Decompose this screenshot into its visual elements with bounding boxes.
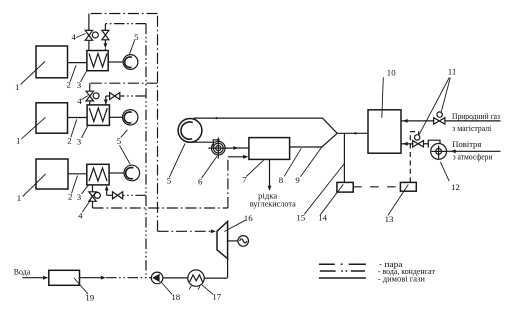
svg-text:2: 2 [67, 136, 71, 146]
svg-text:18: 18 [171, 292, 180, 302]
svg-text:16: 16 [244, 213, 253, 223]
svg-text:з магістралі: з магістралі [452, 123, 492, 133]
svg-text:17: 17 [212, 291, 221, 301]
svg-text:1: 1 [17, 193, 21, 203]
svg-text:4: 4 [71, 32, 76, 42]
svg-text:5: 5 [167, 175, 172, 185]
svg-text:1: 1 [16, 136, 20, 146]
svg-text:4: 4 [77, 96, 82, 106]
svg-text:- димові гази: - димові гази [378, 274, 426, 283]
svg-text:19: 19 [85, 292, 94, 302]
svg-text:Природний газ: Природний газ [452, 111, 501, 121]
svg-text:3: 3 [77, 136, 82, 146]
svg-text:9: 9 [295, 175, 300, 185]
svg-text:10: 10 [387, 68, 396, 78]
svg-text:8: 8 [279, 175, 284, 185]
svg-text:15: 15 [296, 213, 305, 223]
svg-text:7: 7 [242, 175, 247, 185]
svg-text:14: 14 [318, 213, 327, 223]
svg-text:4: 4 [78, 211, 83, 221]
svg-text:2: 2 [66, 80, 70, 90]
svg-text:Вода: Вода [14, 267, 31, 277]
svg-text:3: 3 [77, 80, 82, 90]
svg-text:Повітря: Повітря [452, 139, 481, 149]
svg-text:6: 6 [198, 177, 203, 187]
svg-text:2: 2 [68, 192, 72, 202]
svg-text:вуглекислота: вуглекислота [250, 199, 296, 209]
svg-text:5: 5 [117, 136, 122, 146]
svg-text:1: 1 [15, 82, 19, 92]
svg-text:3: 3 [77, 192, 82, 202]
svg-text:з атмосфери: з атмосфери [453, 152, 493, 162]
svg-text:11: 11 [448, 66, 456, 76]
svg-text:13: 13 [385, 214, 394, 224]
svg-text:5: 5 [134, 32, 139, 42]
svg-text:12: 12 [451, 182, 460, 192]
